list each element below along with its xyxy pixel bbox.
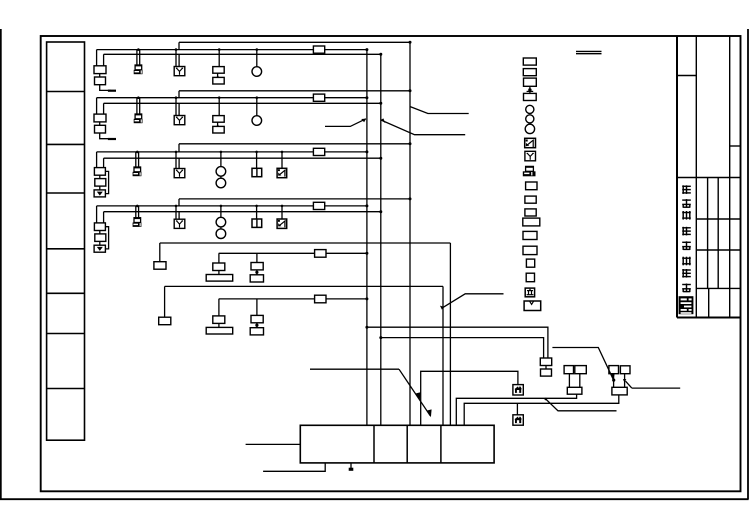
row3 split indicator box	[256, 152, 258, 168]
floor cell divider	[47, 333, 85, 335]
title text glyph	[682, 241, 691, 250]
row3 signal bus 2	[104, 157, 381, 159]
row2 Y detector box	[175, 98, 177, 116]
row3 module link a	[99, 175, 101, 178]
row3 hatched damper box	[281, 152, 283, 168]
row3 module bypass bracket	[105, 171, 108, 193]
row4 module box2	[95, 234, 106, 242]
row1 input module box2	[95, 77, 106, 85]
title block h divider d	[696, 218, 740, 220]
title block bottom edge	[677, 317, 740, 319]
row1 signal bus 2	[104, 53, 381, 55]
riser bus V1	[366, 50, 368, 426]
row3 module link b	[99, 186, 101, 190]
device group F G H	[609, 366, 619, 374]
row3 bus2 left drop	[103, 158, 105, 167]
legend small square 1	[526, 259, 534, 267]
title block v sub 3	[708, 288, 710, 317]
row1 control module pair	[218, 50, 220, 67]
leader row2 c to V1	[325, 119, 366, 127]
row2 short-circuit isolator on bus	[313, 94, 324, 101]
floor cell divider	[47, 143, 85, 145]
floor cell divider	[47, 292, 85, 294]
legend rect 2	[523, 69, 536, 76]
double dash mark	[576, 50, 602, 52]
row4 bus2 left drop	[103, 212, 105, 223]
title block logo stamp	[679, 296, 694, 314]
row1 smoke detector	[136, 50, 138, 66]
row4 frame drop to bus	[178, 199, 180, 206]
legend rect 4	[524, 93, 537, 100]
feed wire H3 from V1	[367, 327, 548, 358]
row6 module box	[159, 317, 171, 325]
row5 sub wire	[219, 252, 367, 254]
row5 control device B	[256, 253, 258, 262]
floor cell divider	[47, 91, 85, 93]
legend wide rect	[523, 218, 540, 226]
row5 left drop	[159, 243, 161, 262]
title text glyph	[682, 257, 691, 266]
row5 isolator on sub wire	[315, 250, 326, 258]
title block h divider a	[677, 75, 696, 77]
bottom stacked module pair	[540, 358, 551, 366]
row1 input module box1	[94, 66, 106, 74]
title block h divider f	[696, 287, 740, 289]
device group C D E	[564, 366, 573, 374]
row1 Y detector box	[175, 50, 177, 67]
legend circle 1	[526, 105, 534, 113]
row3 frame drop to bus	[178, 144, 180, 152]
floor cell divider	[47, 192, 85, 194]
wire H10 panel to device E	[456, 394, 576, 425]
title block h divider e	[696, 249, 740, 251]
row4 module bypass bracket	[105, 227, 108, 249]
panel divider 1	[373, 425, 375, 463]
title block h divider c	[677, 177, 740, 179]
row1 bus2 left drop	[103, 54, 105, 66]
riser frame line V3	[409, 42, 411, 425]
title block v line C	[695, 36, 697, 318]
legend circle 3	[525, 124, 534, 133]
panel divider 2	[406, 425, 408, 463]
wire H8	[310, 368, 399, 370]
floor cell divider	[47, 388, 85, 390]
title text glyph	[682, 269, 691, 278]
row3 speaker double circle	[220, 152, 222, 167]
row4 signal bus 1	[97, 205, 367, 207]
leader row1-2 b	[381, 120, 465, 135]
row4 module link b	[99, 241, 101, 245]
row3 module box1	[94, 168, 105, 176]
floor cell divider	[47, 248, 85, 250]
row2 bus1 left drop	[96, 98, 98, 114]
row3 short-circuit isolator on bus	[313, 148, 324, 155]
drop to call point J	[516, 403, 518, 415]
row6 isolator on sub wire	[315, 295, 326, 303]
row2 module link	[99, 122, 101, 125]
row1 bus1 left drop	[96, 50, 98, 66]
wire from panel to manual call point I	[421, 371, 518, 425]
leader arrow into panel cell3	[399, 369, 430, 416]
row1 ground bar	[108, 90, 116, 92]
row2 module tail wire	[100, 133, 111, 139]
title text glyph	[682, 211, 691, 220]
legend rect 5	[526, 182, 537, 190]
legend rect 1	[523, 58, 536, 65]
title block v line D	[729, 36, 731, 318]
row4 short-circuit isolator on bus	[313, 202, 324, 209]
legend circle 2	[526, 115, 534, 123]
title text glyph	[682, 185, 691, 194]
panel ground electrode	[350, 463, 352, 469]
row6 control device B	[256, 299, 258, 316]
feed wire H4 from V2	[381, 338, 544, 358]
row2 alarm bell	[256, 98, 258, 116]
row6 left drop	[164, 286, 166, 317]
row3 loop frame line	[179, 143, 410, 145]
row1 module link	[99, 74, 101, 77]
row1 signal bus 1	[97, 49, 367, 51]
floor zone column	[47, 42, 85, 440]
panel divider 3	[440, 425, 442, 463]
row6 branch top line	[165, 285, 443, 287]
manual call point J	[513, 415, 523, 425]
row4 module box1	[94, 223, 105, 231]
leader row1-2 a	[410, 107, 469, 114]
row4 Y detector box	[175, 206, 177, 219]
row4 hatched damper box	[281, 206, 283, 219]
row3 smoke detector	[135, 152, 137, 167]
legend small square 2	[526, 273, 534, 282]
row1 alarm bell	[256, 50, 258, 67]
row2 loop frame line	[179, 90, 410, 92]
title block h divider b	[730, 145, 741, 147]
riser V5 from row5	[449, 243, 451, 425]
row4 split indicator box	[256, 206, 258, 219]
row1 frame drop to bus	[178, 42, 180, 49]
row2 frame drop to bus	[178, 91, 180, 98]
row1 short-circuit isolator on bus	[313, 46, 324, 53]
row5 branch top line	[160, 242, 451, 244]
row1 loop frame line	[179, 41, 410, 43]
row2 signal bus 1	[97, 97, 367, 99]
row3 Y detector box	[175, 152, 177, 169]
row3 module box2	[95, 179, 106, 187]
legend Y box	[525, 151, 536, 161]
row2 signal bus 2	[104, 102, 381, 104]
row4 module link a	[99, 231, 101, 234]
outer sheet border bottom	[0, 498, 749, 500]
title text glyph	[682, 199, 691, 208]
main fire alarm control panel	[300, 425, 494, 463]
title block left edge	[676, 36, 678, 318]
title block v sub 2	[717, 178, 719, 289]
title block v sub 1	[707, 178, 709, 289]
row2 ground bar	[108, 138, 116, 140]
row3 bus1 left drop	[96, 152, 98, 168]
wire H11 panel to device H	[464, 395, 619, 425]
outer sheet border right	[747, 29, 749, 499]
leader at V4	[440, 306, 444, 310]
row2 input module box1	[94, 114, 106, 122]
panel bottom feed wire W2	[263, 463, 325, 471]
row4 bus1 left drop	[96, 206, 98, 223]
riser bus V2	[380, 54, 382, 425]
legend hydrant button	[525, 288, 534, 297]
row1 module tail wire	[100, 85, 111, 91]
legend hatched box	[525, 138, 536, 147]
row3 signal bus 1	[97, 151, 367, 153]
wire from device H to right	[626, 381, 632, 388]
legend smoke detector	[526, 166, 534, 171]
title text glyph	[682, 284, 691, 293]
row4 smoke detector	[135, 206, 137, 218]
outer sheet border left	[0, 29, 2, 499]
row6 control device A	[218, 299, 220, 316]
legend notched box	[524, 301, 541, 311]
row4 sounder box with arrow	[94, 245, 105, 252]
row4 signal bus 2	[104, 211, 381, 213]
legend rect 6	[525, 196, 536, 203]
row5 module box	[154, 262, 166, 270]
row3 sounder box with arrow	[94, 190, 105, 197]
row4 speaker double circle	[220, 206, 222, 217]
panel left feed wire W1	[246, 443, 301, 445]
row2 input module box2	[95, 125, 106, 133]
legend rect 9	[523, 246, 537, 254]
row6 sub wire	[219, 298, 367, 300]
row5 control device A	[218, 253, 220, 263]
legend rect 3 with tail	[524, 78, 537, 86]
row4 loop frame line	[179, 198, 410, 200]
title text glyph	[682, 227, 691, 236]
row2 bus2 left drop	[103, 103, 105, 114]
row2 control module pair	[218, 98, 220, 116]
leader to device F	[552, 348, 613, 379]
riser V4 from row6	[442, 286, 444, 425]
legend rect 7	[525, 209, 536, 216]
row2 smoke detector	[136, 98, 138, 115]
legend rect 8	[523, 231, 537, 239]
leader on H10	[545, 398, 617, 411]
manual call point I	[513, 385, 523, 395]
